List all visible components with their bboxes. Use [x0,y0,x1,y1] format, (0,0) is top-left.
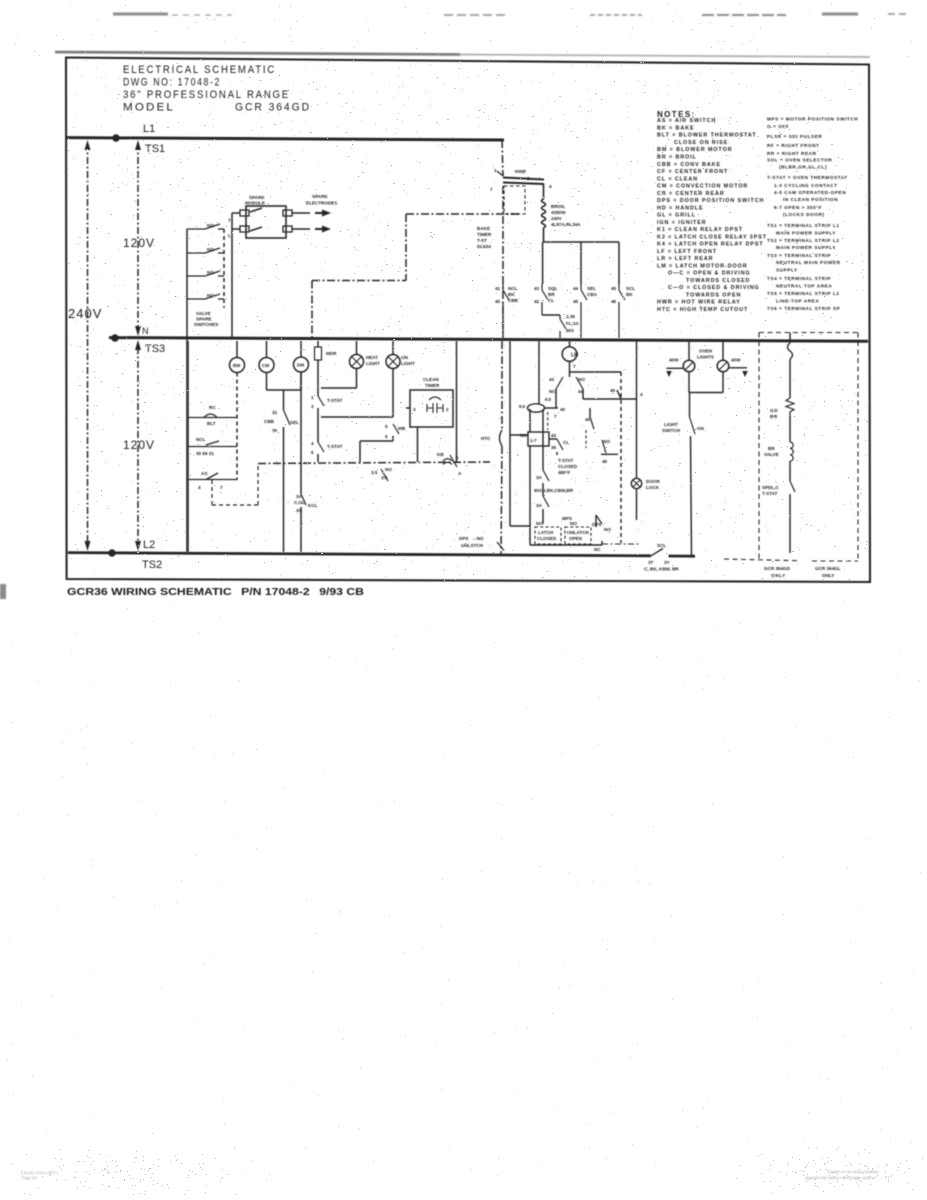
svg-text:MB: MB [398,426,406,431]
svg-text:4-5 CAM OPERATED-OPEN: 4-5 CAM OPERATED-OPEN [774,190,846,195]
svg-text:GL = GRILL: GL = GRILL [657,213,696,219]
svg-text:NO: NO [570,521,577,526]
svg-text:MODULE: MODULE [245,201,265,206]
svg-text:NO: NO [207,293,214,298]
svg-text:41: 41 [495,286,501,291]
svg-text:7: 7 [573,364,576,369]
svg-text:CM: CM [262,363,269,368]
svg-text:T-STAT: T-STAT [327,398,343,403]
svg-text:2: 2 [527,176,530,181]
svg-text:40: 40 [495,299,501,304]
svg-text:1-3 CYCLING CONTACT: 1-3 CYCLING CONTACT [774,183,838,188]
svg-text:T-STAT: T-STAT [762,491,778,496]
svg-text:LM: LM [571,353,578,359]
svg-text:GCR 364GD: GCR 364GD [235,102,311,114]
svg-text:GCR 364GL: GCR 364GL [815,566,841,571]
svg-text:ONLY: ONLY [771,573,786,578]
svg-text:BK = BAKE: BK = BAKE [657,126,694,132]
svg-text:KB: KB [437,452,444,457]
svg-text:IGN = IGNITER: IGN = IGNITER [657,220,707,226]
svg-text:K3: K3 [545,397,551,402]
svg-text:BR = BROIL: BR = BROIL [657,155,697,161]
svg-text:NC: NC [536,521,543,526]
svg-text:SEL: SEL [290,420,299,425]
svg-text:PLSR = SDI PULSER: PLSR = SDI PULSER [767,134,822,139]
svg-text:a ab abc VGA w 3 B K L: a ab abc VGA w 3 B K L [21,1171,59,1175]
svg-text:RC: RC [209,405,216,410]
svg-text:CLOSED: CLOSED [558,464,578,469]
svg-text:CBA: CBA [587,292,598,297]
svg-text:C—O = CLOSED & DRIVING: C—O = CLOSED & DRIVING [668,285,760,291]
svg-text:45: 45 [585,417,591,422]
svg-text:3T: 3T [648,560,654,565]
svg-text:ELECTRICAL SCHEMATIC: ELECTRICAL SCHEMATIC [123,64,276,76]
svg-text:UNLSTCH: UNLSTCH [461,543,484,548]
svg-text:BM = BLOWER MOTOR: BM = BLOWER MOTOR [657,147,733,153]
svg-text:MPS = MOTOR POSITION SWITCH: MPS = MOTOR POSITION SWITCH [767,117,858,122]
svg-text:GCR36 WIRING SCHEMATIC P/N 17: GCR36 WIRING SCHEMATIC P/N 17048-2 9/93 … [67,586,364,598]
svg-text:K3 = LATCH CLOSE RELAY 3PST: K3 = LATCH CLOSE RELAY 3PST [657,234,767,240]
svg-text:44: 44 [578,389,584,394]
svg-text:NC: NC [594,547,601,552]
svg-text:UNLATCH: UNLATCH [567,530,590,535]
svg-text:GD: GD [770,408,778,413]
svg-text:240V: 240V [68,306,102,321]
svg-text:TOWARDS CLOSED: TOWARDS CLOSED [686,278,750,284]
svg-text:NO: NO [207,247,214,252]
svg-text:5: 5 [385,424,388,429]
svg-text:TS4 = TERMINAL STRIP: TS4 = TERMINAL STRIP [767,276,831,281]
svg-text:O = OFF: O = OFF [767,124,789,129]
svg-text:30 69 31: 30 69 31 [196,451,214,456]
svg-text:43: 43 [551,433,557,438]
svg-text:NCL: NCL [508,286,518,291]
svg-text:4: 4 [549,184,552,189]
svg-text:30: 30 [272,428,278,433]
svg-text:TS3 = TERMINAL STRIP: TS3 = TERMINAL STRIP [767,253,831,258]
svg-text:L2: L2 [143,539,155,551]
svg-text:NO: NO [207,223,214,228]
svg-text:1-7: 1-7 [530,438,537,443]
svg-text:LINE-TOP AREA: LINE-TOP AREA [776,299,819,304]
svg-text:(LOCKS DOOR): (LOCKS DOOR) [783,212,825,217]
svg-text:45: 45 [611,286,617,291]
svg-text:45: 45 [573,299,579,304]
svg-text:VALVE: VALVE [196,311,211,316]
svg-text:43: 43 [534,286,540,291]
svg-text:TIMER: TIMER [477,232,492,237]
svg-text:LIGHT: LIGHT [366,361,380,366]
svg-text:40W: 40W [731,358,741,363]
svg-text:46: 46 [602,459,608,464]
svg-text:3A: 3A [296,494,303,499]
svg-text:4L87A,RL34A: 4L87A,RL34A [551,222,581,227]
svg-text:4350W: 4350W [551,210,566,215]
svg-text:BR: BR [548,292,555,297]
svg-text:CM = CONVECTION MOTOR: CM = CONVECTION MOTOR [657,184,748,190]
svg-text:6: 6 [385,434,388,439]
svg-text:4: 4 [640,392,643,397]
svg-text:IN CLEAN POSITION: IN CLEAN POSITION [783,197,838,202]
svg-text:SOL = OVEN SELECTOR: SOL = OVEN SELECTOR [767,158,832,163]
svg-text:LIGHTS: LIGHTS [697,355,714,360]
svg-text:240V: 240V [551,216,563,221]
svg-text:LIGHT: LIGHT [664,422,678,427]
svg-text:DPS: DPS [459,536,468,541]
svg-text:AS: AS [381,475,387,480]
svg-text:SPARE: SPARE [196,317,212,322]
svg-text:K1 = CLEAN RELAY DPST: K1 = CLEAN RELAY DPST [657,227,743,233]
svg-text:LATCH: LATCH [538,530,554,535]
svg-text:3: 3 [413,407,416,412]
svg-text:MODEL: MODEL [123,102,175,114]
svg-text:42: 42 [534,299,540,304]
svg-text:4: 4 [198,485,201,490]
svg-text:L1: L1 [143,123,155,135]
svg-text:TS6 = TERMINAL STRIP SP: TS6 = TERMINAL STRIP SP [767,306,840,311]
svg-text:T: T [228,218,231,223]
svg-text:KCL: KCL [308,503,318,508]
svg-text:BLT: BLT [207,421,216,426]
svg-text:BR: BR [768,446,775,451]
svg-text:AS: AS [201,471,207,476]
svg-text:NO: NO [207,270,214,275]
svg-text:SWITCH: SWITCH [662,428,681,433]
svg-text:SCL: SCL [626,286,635,291]
svg-text:K4: K4 [519,404,525,409]
svg-text:LR = LEFT REAR: LR = LEFT REAR [657,256,713,262]
svg-text:NO: NO [604,527,611,532]
svg-text:DPS = DOOR POSITION SWITCH: DPS = DOOR POSITION SWITCH [657,198,764,204]
svg-text:SPDL,C: SPDL,C [762,485,780,490]
svg-text:NEUTRAL MAIN POWER: NEUTRAL MAIN POWER [776,260,841,265]
svg-text:RR = RIGHT REAR: RR = RIGHT REAR [767,151,817,156]
svg-text:1: 1 [311,395,314,400]
svg-text:N: N [142,326,149,336]
svg-text:NO: NO [578,377,585,382]
svg-text:CBB: CBB [508,298,519,303]
svg-text:ON: ON [401,355,409,360]
svg-text:K4 = LATCH OPEN RELAY DPST: K4 = LATCH OPEN RELAY DPST [657,242,764,248]
svg-text:46: 46 [611,299,617,304]
svg-text:TS5 = TERMINAL STRIP L2: TS5 = TERMINAL STRIP L2 [767,291,840,296]
svg-text:CR = CENTER REAR: CR = CENTER REAR [657,191,725,197]
svg-text:43: 43 [549,377,555,382]
svg-text:HTC: HTC [481,436,491,441]
svg-text:2: 2 [446,407,449,412]
svg-text:MAIN POWER SUPPLY: MAIN POWER SUPPLY [776,245,836,250]
svg-text:6-7 OPEN > 350°F: 6-7 OPEN > 350°F [774,205,822,210]
svg-text:CL: CL [563,440,569,445]
svg-text:CBB: CBB [264,419,275,424]
svg-text:903 2,BK,CBM,BR: 903 2,BK,CBM,BR [534,488,574,493]
svg-text:SCL: SCL [657,543,666,548]
svg-text:LIGHT: LIGHT [401,361,415,366]
svg-text:A: A [458,471,462,476]
svg-text:HD = HANDLE: HD = HANDLE [657,205,704,211]
svg-text:3Y: 3Y [664,560,670,565]
svg-text:7: 7 [554,414,557,419]
svg-text:TS2 = TERMINAL STRIP L2: TS2 = TERMINAL STRIP L2 [767,238,840,243]
svg-text:O—C = OPEN & DRIVING: O—C = OPEN & DRIVING [668,271,751,277]
svg-text:NC: NC [549,389,556,394]
svg-text:ONLY: ONLY [822,573,834,578]
svg-text:2,36: 2,36 [566,314,575,319]
svg-text:44: 44 [573,286,579,291]
svg-text:TIMER: TIMER [425,383,440,388]
svg-text:BAKE: BAKE [477,226,490,231]
svg-text:TOWARDS OPEN: TOWARDS OPEN [686,292,741,298]
svg-text:CL: CL [548,298,554,303]
svg-text:TS3: TS3 [145,343,165,355]
svg-text:7: 7 [220,485,223,490]
svg-text:BLT = BLOWER THERMOSTAT: BLT = BLOWER THERMOSTAT [657,133,756,139]
svg-text:DWG NO: 17048-2: DWG NO: 17048-2 [123,77,221,89]
svg-text:CLOSED: CLOSED [537,536,557,541]
svg-text:TS1 = TERMINAL STRIP L1: TS1 = TERMINAL STRIP L1 [767,223,840,228]
svg-text:120V: 120V [123,438,155,452]
svg-text:NEUTRAL TOP AREA: NEUTRAL TOP AREA [776,284,832,289]
svg-text:4: 4 [311,441,314,446]
svg-text:HWR: HWR [515,169,527,174]
svg-text:5: 5 [311,450,314,455]
svg-text:hcapten m. me wrongs smartere: hcapten m. me wrongs smartere [828,1170,878,1174]
svg-text:BR: BR [770,414,778,419]
svg-text:T-STAT = OVEN THERMOSTAT: T-STAT = OVEN THERMOSTAT [767,175,848,180]
svg-text:T-STAT: T-STAT [327,444,343,449]
svg-text:3A: 3A [536,503,543,508]
svg-text:3.5: 3.5 [371,470,378,475]
svg-text:CLEAN: CLEAN [423,377,440,382]
svg-text:NO: NO [603,439,610,444]
svg-text:DPS: DPS [592,522,601,527]
svg-text:45: 45 [610,388,616,393]
svg-text:DL634: DL634 [477,244,491,249]
svg-text:SEL: SEL [587,286,596,291]
svg-text:1: 1 [494,168,497,173]
svg-text:Page 100: Page 100 [22,1176,37,1180]
svg-text:C, BK, KBM, BR: C, BK, KBM, BR [644,567,679,572]
svg-text:120V: 120V [123,236,155,250]
svg-text:RF = RIGHT FRONT: RF = RIGHT FRONT [767,143,819,148]
svg-text:CL = CLEAN: CL = CLEAN [657,176,698,182]
svg-text:HEAT: HEAT [366,355,378,360]
svg-text:DM: DM [297,363,304,368]
svg-text:LF = LEFT FRONT: LF = LEFT FRONT [657,249,717,255]
svg-text:SPARK: SPARK [249,195,265,200]
svg-text:40: 40 [560,407,566,412]
svg-text:3A: 3A [536,475,543,480]
svg-text:NO: NO [385,467,392,472]
svg-text:T-STAT: T-STAT [558,458,574,463]
svg-text:L: L [228,233,231,238]
svg-text:CLOSE ON RISE: CLOSE ON RISE [674,140,728,146]
svg-text:1: 1 [456,455,459,460]
svg-text:40W: 40W [669,358,679,363]
svg-text:FL,3A: FL,3A [566,321,579,326]
svg-text:MDR: MDR [326,351,337,356]
svg-text:ELECTRODES: ELECTRODES [306,201,337,206]
svg-text:VALVE: VALVE [764,452,779,457]
svg-text:36" PROFESSIONAL RANGE: 36" PROFESSIONAL RANGE [123,89,290,101]
svg-text:SWITCHES: SWITCHES [194,322,218,327]
svg-text:(BLBR,GR,GL,CL): (BLBR,GR,GL,CL) [779,165,827,170]
svg-text:BM: BM [233,363,240,368]
svg-text:GCR 364GD: GCR 364GD [764,566,791,571]
svg-text:CF = CENTER FRONT: CF = CENTER FRONT [657,169,728,175]
svg-text:TS2: TS2 [142,559,162,571]
svg-text:3A: 3A [296,508,303,513]
svg-text:↔NO: ↔NO [472,536,484,541]
svg-text:LOCK: LOCK [646,485,660,490]
svg-text:903: 903 [566,328,574,333]
svg-text:NO: NO [520,433,527,438]
svg-text:DOOR: DOOR [646,479,660,484]
svg-text:32: 32 [272,410,278,415]
svg-text:BK: BK [626,292,633,297]
svg-text:CBB = CONV BAKE: CBB = CONV BAKE [657,162,721,168]
svg-text:T-ST: T-ST [477,238,487,243]
svg-text:HWR = HOT WIRE RELAY: HWR = HOT WIRE RELAY [657,300,741,306]
svg-text:C,GL: C,GL [294,500,305,505]
svg-text:LM = LATCH MOTOR-DOOR: LM = LATCH MOTOR-DOOR [657,263,748,269]
svg-text:BROIL: BROIL [551,204,565,209]
svg-text:3: 3 [311,404,314,409]
svg-text:OVEN: OVEN [699,349,713,354]
svg-text:7: 7 [490,187,493,192]
svg-text:HTC = HIGH TEMP CUTOUT: HTC = HIGH TEMP CUTOUT [657,307,748,313]
svg-text:NCL: NCL [196,437,206,442]
svg-text:SPARK: SPARK [312,194,328,199]
svg-text:ON: ON [697,426,705,431]
svg-text:36: 36 [551,445,557,450]
svg-text:AS = AIR SWITCH: AS = AIR SWITCH [657,118,716,124]
svg-text:SQL: SQL [548,286,558,291]
svg-text:MAIN POWER SUPPLY: MAIN POWER SUPPLY [776,231,836,236]
svg-text:SUPPLY: SUPPLY [776,268,798,273]
